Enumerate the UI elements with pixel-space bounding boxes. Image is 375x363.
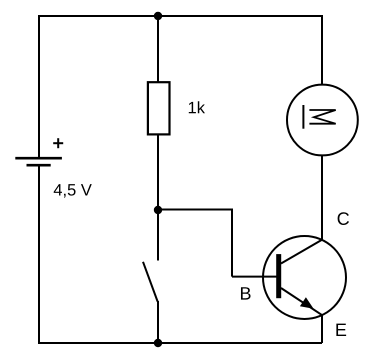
wire bottom rail	[38, 342, 322, 344]
resistor R1 value 1k	[189, 101, 205, 113]
node top junction	[154, 12, 162, 20]
battery BT1 polarity plus	[53, 138, 63, 148]
wire base branch	[158, 210, 232, 277]
wire collector	[321, 155, 323, 240]
label C collector	[338, 212, 349, 225]
battery BT1	[15, 158, 62, 165]
switch S1 blade	[143, 262, 158, 302]
motor M1	[287, 85, 358, 156]
wire top rail	[38, 15, 322, 17]
battery BT1 value 4,5 V	[54, 184, 92, 197]
node bottom junction	[154, 339, 162, 347]
wire emitter	[321, 314, 323, 343]
label E emitter	[336, 324, 346, 336]
wire base	[232, 276, 277, 278]
wire resistor bottom	[157, 135, 159, 211]
resistor R1	[148, 82, 170, 134]
wire switch lower	[157, 301, 159, 343]
wire left rail upper	[38, 15, 40, 158]
wire left rail lower	[38, 165, 40, 343]
label B base	[241, 287, 251, 299]
wire switch upper	[157, 210, 159, 261]
transistor Q1	[263, 236, 346, 319]
wire right rail top	[321, 15, 323, 85]
wire resistor top	[157, 16, 159, 82]
node junction base branch	[154, 206, 162, 214]
